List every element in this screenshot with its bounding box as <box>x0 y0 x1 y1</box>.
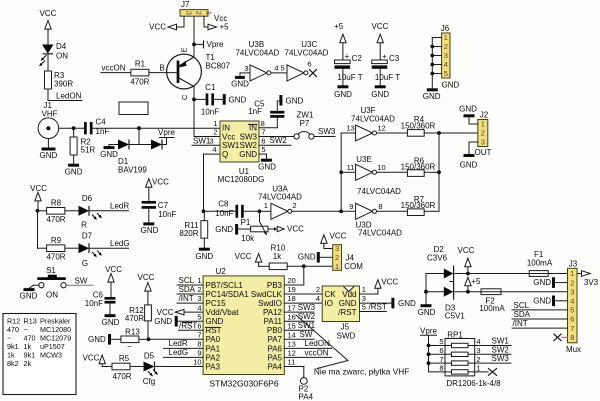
svg-text:12: 12 <box>377 124 385 133</box>
svg-text:GND: GND <box>100 150 118 159</box>
power flag 3V3 <box>577 273 582 275</box>
svg-text:VCC: VCC <box>287 225 304 234</box>
svg-text:PA12: PA12 <box>263 308 283 317</box>
svg-text:74LVC04AD: 74LVC04AD <box>285 48 329 57</box>
svg-text:F1: F1 <box>534 250 544 259</box>
net label /RST pin6 <box>179 329 204 331</box>
svg-text:PA5: PA5 <box>267 353 282 362</box>
svg-text:3: 3 <box>335 244 339 253</box>
svg-text:Vcc: Vcc <box>214 14 227 23</box>
svg-text:C2: C2 <box>352 54 363 63</box>
svg-text:2: 2 <box>476 355 480 364</box>
svg-text:74LVC04AD: 74LVC04AD <box>357 187 401 196</box>
svg-text:/RST: /RST <box>369 303 387 312</box>
svg-text:SW2: SW2 <box>270 136 288 145</box>
svg-text:GND: GND <box>206 317 224 326</box>
svg-text:vccON: vccON <box>305 348 329 357</box>
svg-text:MC12080DG: MC12080DG <box>218 175 265 184</box>
svg-text:PA0: PA0 <box>206 335 221 344</box>
options table <box>3 314 76 395</box>
svg-text:LedR: LedR <box>110 202 129 211</box>
svg-text:16: 16 <box>288 312 296 321</box>
net label LedG <box>89 247 129 249</box>
ground C5 <box>279 95 282 106</box>
ground U1 pin5 <box>259 153 267 155</box>
ground R2 <box>73 155 75 164</box>
svg-text:LedG: LedG <box>110 239 130 248</box>
svg-text:J2: J2 <box>480 110 489 119</box>
svg-text:2: 2 <box>197 285 201 294</box>
svg-text:D7: D7 <box>82 231 93 240</box>
net label /RST J5 pin5 <box>360 311 387 313</box>
svg-text:GND: GND <box>459 104 477 113</box>
svg-text:SDA: SDA <box>179 285 196 294</box>
svg-text:E: E <box>180 47 189 52</box>
net label SCL J3 <box>512 309 568 311</box>
svg-text:OUT: OUT <box>475 148 492 157</box>
svg-text:GND: GND <box>239 150 257 159</box>
svg-text:9: 9 <box>197 349 201 358</box>
net label SW1 pin15 <box>284 329 314 331</box>
ground C1 <box>223 94 226 105</box>
svg-text:SW1: SW1 <box>492 337 510 346</box>
svg-text:SW3: SW3 <box>318 127 336 136</box>
svg-text:VCC: VCC <box>157 308 174 317</box>
svg-text:R9: R9 <box>51 236 62 245</box>
svg-text:PA6: PA6 <box>267 344 282 353</box>
svg-text:GND: GND <box>231 80 249 89</box>
svg-text:Vpre: Vpre <box>158 128 175 137</box>
svg-text:4: 4 <box>476 337 480 346</box>
LED D6 R <box>65 210 79 212</box>
svg-text:4: 4 <box>197 303 201 312</box>
resistor R8 470R <box>38 210 47 212</box>
svg-text:C8: C8 <box>218 200 229 209</box>
net label SW2 pin16 <box>284 320 314 322</box>
svg-text:D5: D5 <box>144 352 155 361</box>
svg-text:150/360R: 150/360R <box>401 121 436 130</box>
svg-text:1: 1 <box>481 120 485 129</box>
svg-text:P1: P1 <box>241 218 251 227</box>
note leader lines <box>296 315 348 361</box>
net label SW <box>66 284 93 286</box>
svg-text:+5: +5 <box>220 23 230 32</box>
svg-text:74LVC04AD: 74LVC04AD <box>235 48 279 57</box>
LED D7 G <box>65 247 79 249</box>
svg-text:470R: 470R <box>125 314 144 323</box>
zener D3 C5V1 <box>426 291 444 293</box>
svg-text:Vpre: Vpre <box>207 40 224 49</box>
svg-text:7: 7 <box>197 330 201 339</box>
svg-text:1: 1 <box>570 269 574 278</box>
svg-text:MCW3: MCW3 <box>40 351 62 360</box>
svg-text:C1: C1 <box>205 83 216 92</box>
svg-text:BAV199: BAV199 <box>118 166 147 175</box>
no-connect X RP1 <box>488 368 497 375</box>
svg-text:6: 6 <box>570 315 574 324</box>
svg-text:R: R <box>81 221 87 230</box>
svg-text:2: 2 <box>194 11 203 15</box>
svg-text:VHF: VHF <box>42 110 58 119</box>
svg-text:1: 1 <box>444 33 448 42</box>
svg-text:SW2: SW2 <box>240 141 258 150</box>
svg-text:+: + <box>345 52 350 61</box>
svg-text:+5: +5 <box>471 277 481 286</box>
svg-text:2: 2 <box>213 128 217 137</box>
net label LedR <box>89 210 129 212</box>
no-connect X J3 pin8 <box>554 334 562 341</box>
svg-text:Cfg: Cfg <box>143 377 155 386</box>
svg-text:15: 15 <box>288 321 296 330</box>
svg-text:GND: GND <box>65 167 83 176</box>
svg-text:SW1: SW1 <box>222 141 240 150</box>
svg-text:LedON: LedON <box>56 91 82 100</box>
svg-text:C3V6: C3V6 <box>427 253 448 262</box>
net label SW1 pin3 <box>192 144 220 146</box>
svg-text:B: B <box>159 63 164 72</box>
svg-text:8: 8 <box>378 202 382 211</box>
svg-text:100mA: 100mA <box>527 259 553 268</box>
emitter wire to J7 <box>193 16 195 57</box>
svg-text:SW: SW <box>300 330 313 339</box>
svg-text:PA7: PA7 <box>267 335 282 344</box>
svg-text:LedG: LedG <box>169 348 189 357</box>
svg-text:SwdIO: SwdIO <box>258 299 282 308</box>
svg-text:2: 2 <box>292 201 296 210</box>
svg-text:PA4: PA4 <box>267 362 282 371</box>
net label LedG pin9 <box>164 356 204 358</box>
LED D4 ON <box>42 45 54 54</box>
svg-text:Vdd: Vdd <box>342 290 356 299</box>
net label LedR pin8 <box>164 347 204 349</box>
svg-text:STM32G030F6P6: STM32G030F6P6 <box>209 379 278 389</box>
svg-text:10: 10 <box>377 163 385 172</box>
svg-text:VCC: VCC <box>105 265 122 274</box>
svg-text:SW3: SW3 <box>240 132 258 141</box>
collector wire to U1 Vcc <box>193 87 195 137</box>
capacitor C8 10nF <box>202 209 206 213</box>
svg-text:PB7/SCL1: PB7/SCL1 <box>206 281 244 290</box>
svg-text:VCC: VCC <box>330 232 347 241</box>
svg-text:GND: GND <box>141 226 159 235</box>
net label /INT <box>177 302 203 304</box>
wire U3A out <box>292 210 356 212</box>
net label SW3 <box>314 136 335 138</box>
svg-text:10nF: 10nF <box>215 209 233 218</box>
empty footprint box <box>119 102 148 115</box>
svg-text:GND: GND <box>533 296 551 305</box>
svg-text:14: 14 <box>288 330 296 339</box>
ground U3B input <box>235 76 245 79</box>
svg-text:8: 8 <box>197 339 201 348</box>
svg-text:SW1: SW1 <box>193 136 211 145</box>
svg-text:3: 3 <box>481 138 485 147</box>
svg-text:12: 12 <box>288 349 296 358</box>
wire <box>47 29 49 45</box>
svg-text:VCC: VCC <box>149 23 166 32</box>
ground J6 <box>431 38 433 89</box>
svg-text:10k: 10k <box>241 234 255 243</box>
net label SCL <box>177 284 203 286</box>
svg-text:6: 6 <box>307 60 311 69</box>
svg-text:CK: CK <box>325 290 337 299</box>
svg-text:13: 13 <box>346 124 354 133</box>
svg-text:SW3: SW3 <box>298 303 316 312</box>
svg-text:U2: U2 <box>216 267 227 276</box>
svg-text:GND: GND <box>20 292 38 301</box>
svg-text:13: 13 <box>288 339 296 348</box>
ground R11 <box>203 238 205 247</box>
svg-text:SCL: SCL <box>179 276 195 285</box>
header J5 SWD <box>322 286 359 322</box>
U2 right pin wires <box>284 293 322 295</box>
svg-text:5: 5 <box>570 306 574 315</box>
svg-text:5: 5 <box>197 312 201 321</box>
net label /INT J3 <box>512 327 568 329</box>
svg-text:1k: 1k <box>273 252 282 261</box>
ground J2 pin1 <box>469 123 478 125</box>
net label SDA J3 <box>512 318 568 320</box>
svg-text:VCC: VCC <box>83 353 100 362</box>
power flag VCC J5 <box>360 293 378 295</box>
svg-text:7: 7 <box>261 128 265 137</box>
svg-text:GND: GND <box>40 151 58 160</box>
svg-text:11: 11 <box>347 163 355 172</box>
transistor T1 BC807 <box>167 54 202 89</box>
svg-text:U3E: U3E <box>356 155 372 164</box>
svg-text:1: 1 <box>335 262 339 271</box>
capacitor C4 1nF <box>84 122 87 134</box>
svg-text:GND: GND <box>339 299 357 308</box>
svg-text:GND: GND <box>154 317 172 326</box>
svg-text:LedR: LedR <box>169 339 188 348</box>
svg-text:J6: J6 <box>441 24 450 33</box>
svg-text:10nF: 10nF <box>85 299 103 308</box>
svg-text:ON: ON <box>46 290 58 299</box>
svg-text:SW1: SW1 <box>298 321 316 330</box>
svg-text:1: 1 <box>264 201 268 210</box>
svg-text:Vcc: Vcc <box>222 132 235 141</box>
svg-text:470R: 470R <box>46 215 65 224</box>
diode D1 BAV199 clamp <box>138 128 140 144</box>
net label SDA <box>177 293 203 295</box>
svg-text:GND: GND <box>334 90 352 99</box>
ground J3 pin4 <box>552 296 555 307</box>
svg-text:820R: 820R <box>179 229 198 238</box>
resistor R2 51R <box>73 128 75 137</box>
svg-text:GND: GND <box>195 252 213 261</box>
svg-text:1nF: 1nF <box>96 127 110 136</box>
svg-text:Nie ma zwarc, płytka VHF: Nie ma zwarc, płytka VHF <box>314 367 409 377</box>
svg-text:GND: GND <box>215 225 233 234</box>
svg-text:vccON: vccON <box>102 63 126 72</box>
svg-text:VCC: VCC <box>381 277 398 286</box>
ground J5 pin3 <box>360 302 392 304</box>
resistor R3 390R <box>45 71 52 89</box>
svg-text:IN: IN <box>249 124 257 133</box>
svg-text:Mux: Mux <box>566 345 581 354</box>
wire to R9 <box>37 211 39 248</box>
svg-text:3: 3 <box>444 51 448 60</box>
svg-text:8k2: 8k2 <box>7 359 19 368</box>
svg-text:390R: 390R <box>54 80 73 89</box>
zener D2 C3V6 <box>426 273 444 275</box>
svg-text:10nF: 10nF <box>201 108 219 117</box>
svg-text:R8: R8 <box>51 199 62 208</box>
svg-text:20: 20 <box>288 276 296 285</box>
svg-text:J7: J7 <box>181 0 190 9</box>
net label LedON <box>47 89 49 101</box>
header J4 COM <box>333 245 342 271</box>
svg-text:51R: 51R <box>81 146 96 155</box>
svg-text:3: 3 <box>197 294 201 303</box>
svg-text:10uF T: 10uF T <box>375 73 400 82</box>
svg-text:2: 2 <box>444 42 448 51</box>
test point P2 PA4 <box>284 365 304 367</box>
svg-text:+5: +5 <box>334 22 344 31</box>
svg-text:3: 3 <box>244 64 248 73</box>
svg-text:COM: COM <box>344 262 363 271</box>
svg-text:D4: D4 <box>56 42 67 51</box>
wire RF input <box>59 127 86 129</box>
svg-text:GND: GND <box>102 318 120 327</box>
svg-text:C3: C3 <box>389 54 400 63</box>
svg-text:10: 10 <box>193 358 201 367</box>
svg-text:10nF: 10nF <box>158 210 176 219</box>
capacitor C5 1nF on IN-bar <box>259 127 277 129</box>
svg-text:7: 7 <box>439 355 443 364</box>
power flag VCC P1 <box>268 228 274 230</box>
net label LedON pin13 <box>284 347 331 349</box>
svg-text:2: 2 <box>335 253 339 262</box>
svg-text:SWD: SWD <box>337 332 356 341</box>
svg-text:VCC: VCC <box>458 246 475 255</box>
svg-text:PC14/SDA1: PC14/SDA1 <box>206 290 250 299</box>
svg-text:4: 4 <box>274 64 278 73</box>
svg-text:GND: GND <box>418 308 436 317</box>
svg-text:1: 1 <box>197 276 201 285</box>
svg-text:PA2: PA2 <box>206 353 221 362</box>
svg-text:GND: GND <box>258 162 276 171</box>
svg-text:4: 4 <box>212 145 216 154</box>
svg-text:VCC: VCC <box>152 177 169 186</box>
ground S1 <box>24 288 35 291</box>
svg-text:GND: GND <box>533 278 551 287</box>
ground C6 <box>109 304 111 315</box>
svg-text:GND: GND <box>423 92 441 101</box>
svg-text:8: 8 <box>439 364 443 373</box>
svg-text:2: 2 <box>481 129 485 138</box>
svg-text:PA1: PA1 <box>206 344 221 353</box>
ground zener common <box>425 274 427 305</box>
svg-text:VCC: VCC <box>40 9 57 18</box>
ground J1 <box>47 139 49 148</box>
svg-text:1: 1 <box>213 119 217 128</box>
svg-text:4: 4 <box>316 294 320 303</box>
svg-text:/INT: /INT <box>179 294 194 303</box>
wire pin7 RST <box>149 338 204 340</box>
wire R outputs to J2 <box>438 133 440 211</box>
ground J2 pin3 <box>469 141 478 143</box>
svg-text:7: 7 <box>570 324 574 333</box>
svg-text:8: 8 <box>261 119 265 128</box>
svg-text:+: + <box>382 52 387 61</box>
svg-text:C5V1: C5V1 <box>445 311 466 320</box>
wire U1 Q pin4 <box>204 153 221 155</box>
svg-text:4: 4 <box>444 60 448 69</box>
svg-text:P7: P7 <box>300 119 310 128</box>
svg-text:17: 17 <box>288 303 296 312</box>
svg-text:SwdCLK: SwdCLK <box>251 290 283 299</box>
svg-text:5: 5 <box>439 337 443 346</box>
svg-text:GND: GND <box>229 95 247 104</box>
svg-text:4: 4 <box>570 297 574 306</box>
svg-text:J3: J3 <box>569 260 578 269</box>
svg-text:GND: GND <box>398 299 416 308</box>
svg-text:C4: C4 <box>96 118 107 127</box>
svg-text:R13: R13 <box>125 327 140 336</box>
IC U1 MC12080DG <box>220 121 259 162</box>
svg-text:1nF: 1nF <box>248 107 262 116</box>
net label Vpre <box>160 137 175 139</box>
resistor R1 470R <box>131 69 149 76</box>
svg-text:GND: GND <box>286 96 304 105</box>
svg-text:VCC: VCC <box>235 252 252 261</box>
ground pin5 <box>175 316 178 327</box>
svg-text:SW2: SW2 <box>492 345 510 354</box>
svg-text:18: 18 <box>288 294 296 303</box>
wire U3B out to U3C in <box>271 72 287 74</box>
svg-text:1: 1 <box>204 11 213 15</box>
svg-text:3V3: 3V3 <box>584 278 599 287</box>
capacitor C6 10nF <box>105 297 116 300</box>
svg-text:GND: GND <box>298 253 316 262</box>
svg-text:5: 5 <box>444 69 448 78</box>
svg-text:IN: IN <box>222 124 230 133</box>
svg-text:GND: GND <box>460 161 478 170</box>
svg-text:5: 5 <box>281 64 285 73</box>
svg-text:74LVC04AD: 74LVC04AD <box>358 228 402 237</box>
net label SW3 pin17 <box>284 311 314 313</box>
svg-text:LedON: LedON <box>305 339 331 348</box>
capacitor C7 10nF <box>142 201 156 204</box>
svg-text:SW: SW <box>75 276 88 285</box>
svg-text:GND: GND <box>371 90 389 99</box>
svg-text:C7: C7 <box>158 201 169 210</box>
svg-text:6: 6 <box>439 346 443 355</box>
svg-text:Vdd/Vbat: Vdd/Vbat <box>206 308 240 317</box>
svg-text:PB3: PB3 <box>267 281 283 290</box>
power flag VCC pin4 <box>184 311 203 313</box>
wire J7-3 to VCC flag <box>183 16 185 27</box>
svg-text:8: 8 <box>570 333 574 342</box>
resistor R11 820R <box>201 221 208 239</box>
svg-text:/RST: /RST <box>338 308 356 317</box>
net label vccON pin12 <box>284 356 331 358</box>
no-connect X <box>309 69 317 77</box>
svg-text:3: 3 <box>184 11 193 15</box>
svg-text:470R: 470R <box>130 77 149 86</box>
svg-text:VCC: VCC <box>30 184 47 193</box>
ground R13 <box>108 334 111 345</box>
svg-text:PC15: PC15 <box>206 299 227 308</box>
svg-text:PA11: PA11 <box>264 317 283 326</box>
ground C7 <box>148 209 150 222</box>
svg-text:Vpre: Vpre <box>420 326 437 335</box>
svg-text:Q: Q <box>222 150 228 159</box>
capacitor C1 10nF <box>194 98 206 100</box>
input bus wire <box>340 133 342 211</box>
